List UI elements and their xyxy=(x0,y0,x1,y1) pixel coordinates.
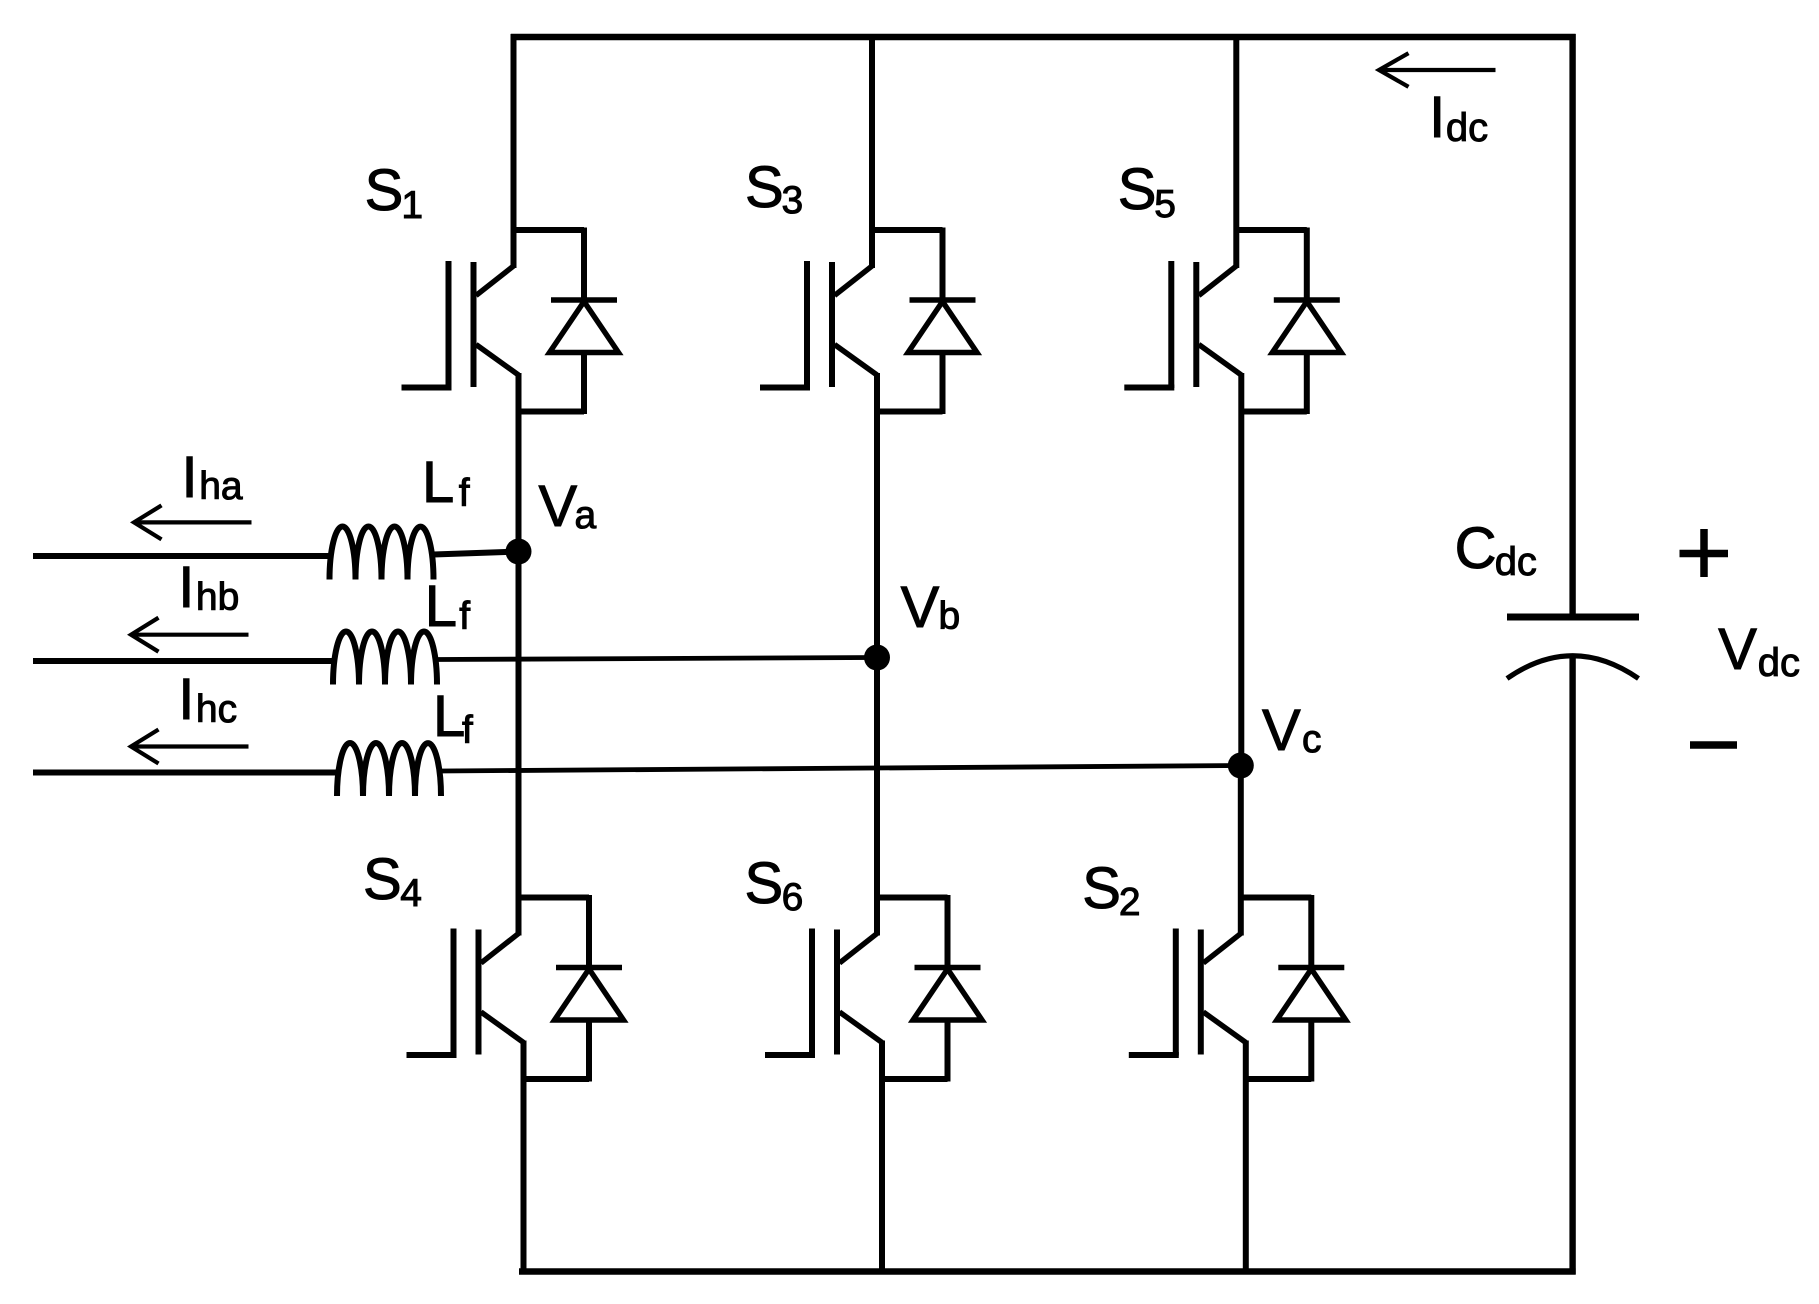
wire phase a input (left terminal to Lf) xyxy=(33,553,332,559)
IGBT transistor S5 (upper switch, phase c) xyxy=(1124,261,1241,388)
svg-text:f: f xyxy=(462,709,473,752)
label S6 xyxy=(745,851,804,919)
freewheeling diode D6 (anti-parallel with S6) xyxy=(877,895,982,1082)
svg-text:4: 4 xyxy=(400,872,422,915)
wire DC+ bus to S5 collector xyxy=(1233,34,1239,268)
label Vc xyxy=(1262,698,1322,763)
wire S1 emitter to node Va xyxy=(516,373,522,552)
freewheeling diode D2 (anti-parallel with S2) xyxy=(1241,895,1346,1082)
svg-text:V: V xyxy=(1262,698,1301,763)
svg-text:dc: dc xyxy=(1495,540,1537,584)
wire DC+ bus to S1 collector xyxy=(511,34,517,268)
node Vb (phase b output junction) xyxy=(864,645,890,671)
IGBT transistor S1 (upper switch, phase a) xyxy=(402,261,519,388)
wire right DC bus lower segment (Cdc to bottom bus) xyxy=(1569,658,1575,1275)
svg-text:f: f xyxy=(459,595,470,638)
wire S3 emitter to node Vb xyxy=(874,373,880,658)
wire node Vc to S2 collector xyxy=(1238,766,1244,936)
IGBT transistor S2 (lower switch, phase c) xyxy=(1129,929,1246,1056)
freewheeling diode D1 (anti-parallel with S1) xyxy=(514,228,619,415)
inductor Lf (phase a filter inductor) xyxy=(330,527,434,580)
svg-text:L: L xyxy=(433,684,465,749)
polarity minus sign (-) of Vdc xyxy=(1690,741,1737,749)
svg-text:ha: ha xyxy=(199,465,243,508)
wire phase b input (left terminal to Lf) xyxy=(33,658,335,664)
label Lf (phase c) xyxy=(433,684,473,752)
wire S5 emitter to node Vc xyxy=(1238,373,1244,766)
IGBT transistor S3 (upper switch, phase b) xyxy=(760,261,877,388)
wire node Vb to S6 collector xyxy=(874,658,880,936)
arrow Idc (DC link current direction) xyxy=(1379,53,1496,87)
svg-text:C: C xyxy=(1455,516,1497,581)
svg-text:f: f xyxy=(459,472,470,515)
svg-text:5: 5 xyxy=(1154,183,1176,226)
label S4 xyxy=(363,847,422,915)
label Vdc xyxy=(1718,617,1800,685)
svg-text:3: 3 xyxy=(782,179,804,222)
svg-text:a: a xyxy=(575,494,597,537)
svg-text:L: L xyxy=(422,450,454,515)
IGBT transistor S6 (lower switch, phase b) xyxy=(765,929,882,1056)
wire S2 emitter to bottom DC bus xyxy=(1243,1041,1249,1275)
arrow Iha (harmonic current direction) xyxy=(134,505,252,539)
label S3 xyxy=(745,155,803,222)
wire node Va to S4 collector xyxy=(516,552,522,936)
svg-text:dc: dc xyxy=(1446,106,1488,150)
label Iha xyxy=(182,445,243,510)
svg-text:S: S xyxy=(365,158,404,223)
node Vc (phase c output junction) xyxy=(1228,753,1254,779)
inductor Lf (phase b filter inductor) xyxy=(333,632,437,685)
svg-text:V: V xyxy=(1718,617,1757,682)
label Ihb xyxy=(178,555,239,620)
svg-text:2: 2 xyxy=(1119,881,1141,924)
wire S4 emitter to bottom DC bus xyxy=(521,1041,527,1275)
svg-text:L: L xyxy=(425,574,457,639)
svg-text:S: S xyxy=(745,155,784,220)
svg-text:I: I xyxy=(182,445,198,510)
svg-text:S: S xyxy=(1118,157,1157,222)
label S5 xyxy=(1118,157,1176,226)
svg-text:c: c xyxy=(1302,718,1322,761)
svg-text:V: V xyxy=(539,474,578,539)
svg-text:I: I xyxy=(1429,85,1445,150)
label S1 xyxy=(365,158,424,227)
svg-text:b: b xyxy=(939,595,961,638)
freewheeling diode D5 (anti-parallel with S5) xyxy=(1236,228,1341,415)
svg-text:V: V xyxy=(901,575,940,640)
svg-text:I: I xyxy=(178,555,194,620)
label S2 xyxy=(1082,856,1140,924)
polarity plus sign (+) of Vdc xyxy=(1680,529,1729,577)
IGBT transistor S4 (lower switch, phase a) xyxy=(407,929,524,1056)
label Lf (phase b) xyxy=(425,574,471,639)
node Va (phase a output junction) xyxy=(506,539,532,565)
svg-text:S: S xyxy=(745,851,784,916)
wire Lf to node Vb xyxy=(437,658,877,660)
svg-text:6: 6 xyxy=(782,876,804,919)
arrow Ihb (harmonic current direction) xyxy=(131,618,249,652)
svg-text:I: I xyxy=(178,667,194,732)
wire Lf to node Vc xyxy=(441,766,1241,772)
wire right DC bus upper segment (top bus to Cdc) xyxy=(1569,34,1575,614)
label Ihc xyxy=(178,667,237,732)
freewheeling diode D3 (anti-parallel with S3) xyxy=(872,228,977,415)
svg-text:S: S xyxy=(1082,856,1121,921)
wire Lf to node Va xyxy=(434,552,519,555)
inductor Lf (phase c filter inductor) xyxy=(337,743,441,796)
arrow Ihc (harmonic current direction) xyxy=(131,730,249,764)
svg-text:dc: dc xyxy=(1758,641,1800,685)
wire S6 emitter to bottom DC bus xyxy=(879,1041,885,1275)
svg-text:hc: hc xyxy=(196,688,237,731)
label Idc xyxy=(1429,85,1488,150)
svg-text:S: S xyxy=(363,847,402,912)
wire bottom DC bus (negative rail) xyxy=(519,1268,1576,1274)
svg-text:hb: hb xyxy=(196,576,239,619)
label Cdc xyxy=(1455,516,1537,584)
svg-text:1: 1 xyxy=(401,184,423,227)
label Va xyxy=(539,474,597,539)
wire phase c input (left terminal to Lf) xyxy=(33,770,339,776)
label Lf (phase a) xyxy=(422,450,470,515)
capacitor Cdc (DC-link capacitor, polarized) xyxy=(1507,617,1639,679)
wire top DC bus (positive rail) xyxy=(511,34,1576,40)
freewheeling diode D4 (anti-parallel with S4) xyxy=(519,895,624,1082)
label Vb xyxy=(901,575,961,640)
wire DC+ bus to S3 collector xyxy=(869,34,875,268)
